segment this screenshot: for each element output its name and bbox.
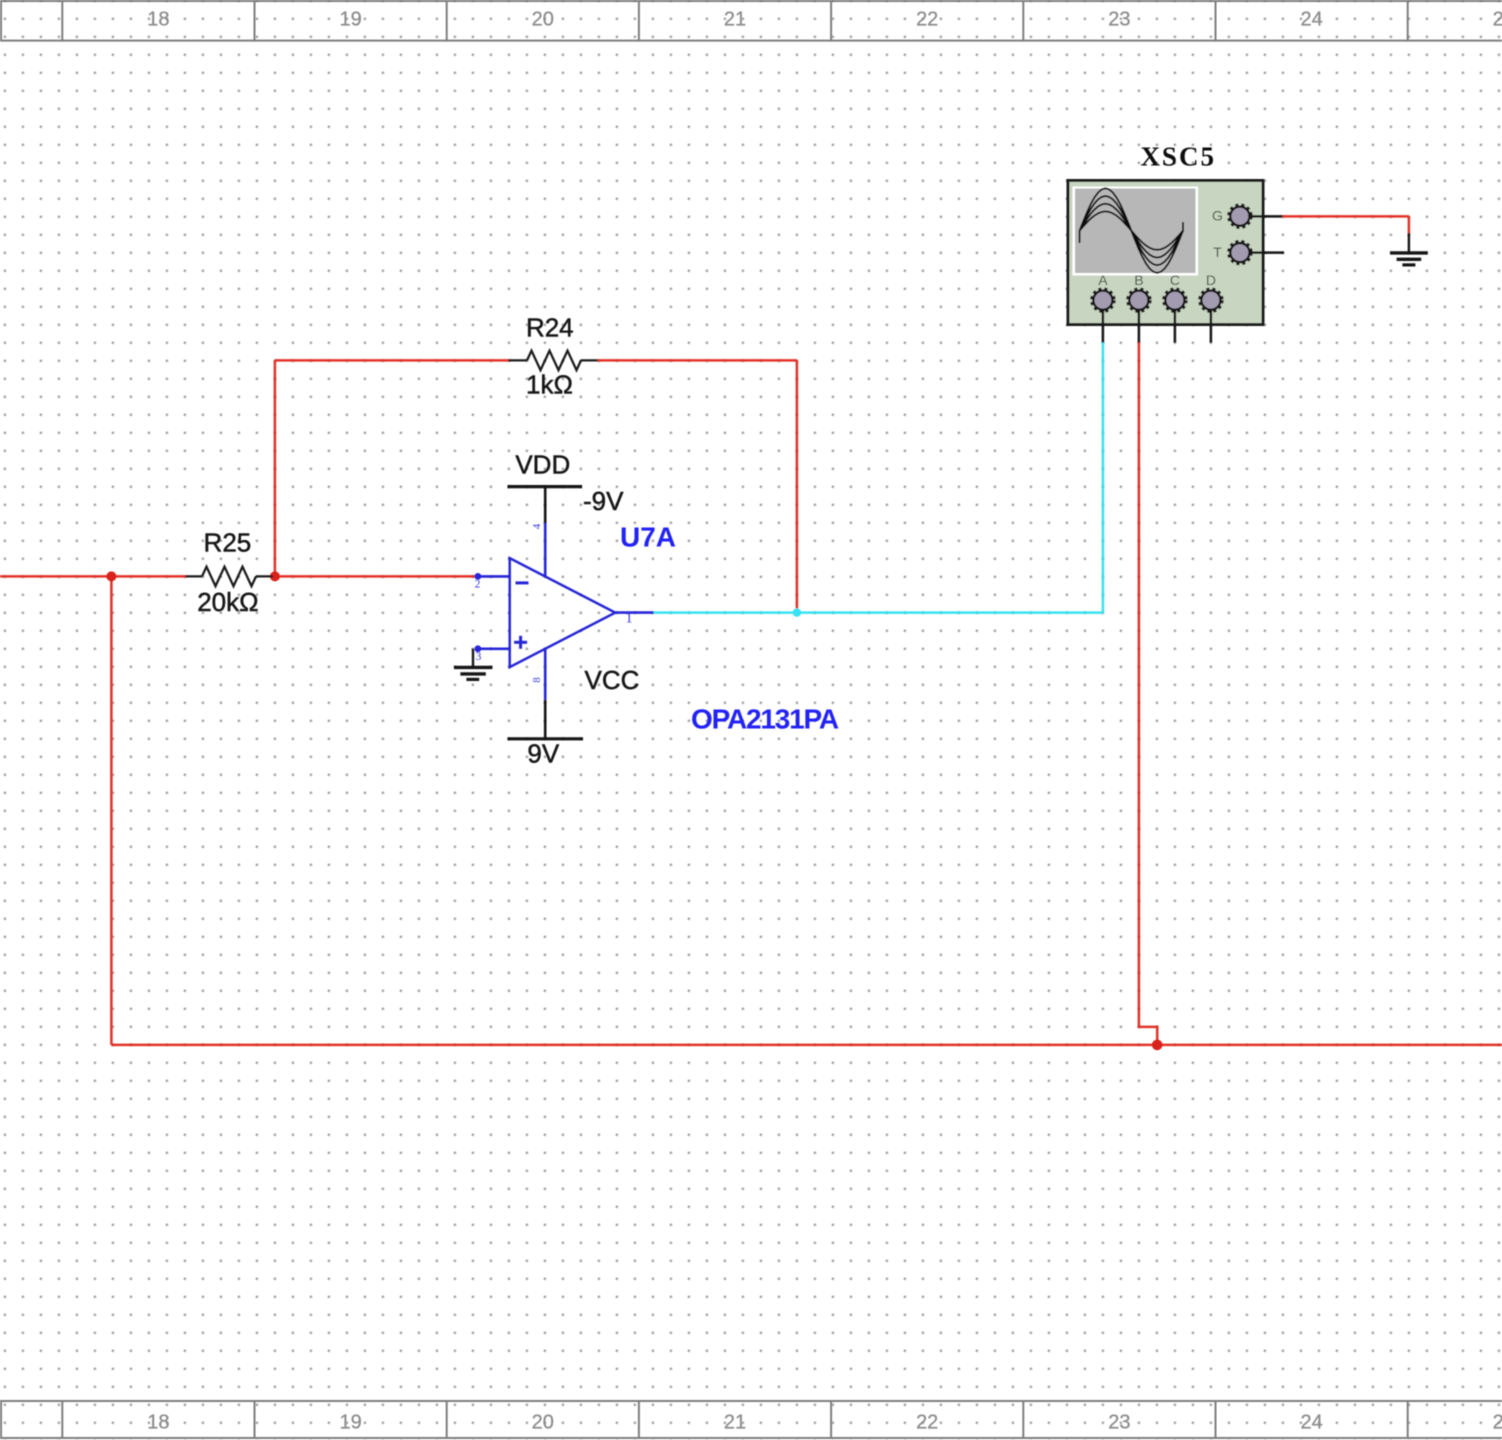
- power pin wires blue: [544, 523, 547, 577]
- terminal A: [1091, 289, 1114, 312]
- svg-text:21: 21: [724, 9, 746, 31]
- svg-text:24: 24: [1300, 9, 1322, 31]
- wire: R25 right to op-amp pin2: [273, 575, 475, 578]
- oscilloscope XSC5: [1068, 181, 1284, 343]
- svg-text:C: C: [1170, 272, 1180, 288]
- wire: scope A channel vertical: [1102, 343, 1105, 613]
- wire: feedback right vertical down to output: [796, 360, 799, 612]
- svg-text:20: 20: [532, 1412, 554, 1434]
- svg-text:1kΩ: 1kΩ: [526, 370, 573, 400]
- svg-text:R25: R25: [204, 528, 252, 558]
- svg-text:1: 1: [625, 611, 633, 627]
- pin 2 stub: [475, 575, 510, 578]
- svg-text:18: 18: [147, 9, 169, 31]
- svg-text:18: 18: [147, 1412, 169, 1434]
- svg-text:22: 22: [916, 1412, 938, 1434]
- VDD power rail: [508, 485, 583, 488]
- svg-text:23: 23: [1108, 1412, 1130, 1434]
- svg-text:20: 20: [532, 9, 554, 31]
- svg-text:19: 19: [339, 9, 361, 31]
- wire: feedback left vertical: [274, 360, 277, 576]
- minus sign: [516, 581, 529, 584]
- terminal D: [1199, 289, 1222, 312]
- junction node B (R25/R24/pin2): [270, 571, 280, 581]
- wire: input net horizontal into R25: [0, 575, 186, 578]
- terminal C: [1163, 289, 1186, 312]
- wire: op-amp output net horizontal: [654, 611, 1103, 614]
- wire: scope G to ground: [1282, 215, 1409, 218]
- svg-text:19: 19: [339, 1412, 361, 1434]
- svg-text:OPA2131PA: OPA2131PA: [691, 704, 839, 735]
- svg-text:20kΩ: 20kΩ: [197, 587, 258, 617]
- VCC power rail: [508, 737, 584, 740]
- terminal B: [1127, 289, 1150, 312]
- scope screen sine waves: [1080, 188, 1183, 273]
- terminal letters: [1098, 208, 1223, 289]
- cyan wires: [654, 343, 1103, 613]
- junction bottom wire: [1152, 1040, 1163, 1051]
- svg-text:U7A: U7A: [620, 521, 676, 552]
- resistor R24: [509, 351, 598, 370]
- scope stems A-D: [1103, 216, 1284, 342]
- svg-text:9V: 9V: [527, 738, 559, 768]
- svg-text:XSC5: XSC5: [1140, 142, 1216, 172]
- junction output/feedback (cyan): [793, 608, 801, 616]
- plus sign: [514, 641, 527, 644]
- svg-text:VCC: VCC: [585, 665, 640, 695]
- svg-text:B: B: [1134, 272, 1143, 288]
- svg-text:G: G: [1212, 208, 1223, 224]
- terminal G: [1228, 205, 1251, 228]
- terminal T: [1228, 241, 1251, 264]
- red wires: [0, 216, 1502, 1045]
- svg-text:D: D: [1206, 272, 1216, 288]
- svg-text:8: 8: [531, 677, 543, 683]
- ruler top band: [0, 0, 1502, 41]
- ruler bottom band: [0, 1401, 1502, 1438]
- ruler top numbers: [147, 9, 1502, 31]
- svg-text:A: A: [1098, 272, 1108, 288]
- output pin 1 stub: [615, 611, 653, 614]
- svg-text:R24: R24: [526, 313, 574, 343]
- wire: feedback top horizontal right of R24: [598, 359, 797, 362]
- wire: scope B channel vertical: [1139, 343, 1157, 1045]
- wire: vertical from node A down: [110, 576, 113, 1045]
- svg-text:25: 25: [1493, 9, 1502, 31]
- junction node A: [106, 571, 116, 581]
- wire: long bottom horizontal: [111, 1044, 1502, 1047]
- svg-text:-9V: -9V: [583, 486, 624, 516]
- svg-text:24: 24: [1300, 1412, 1322, 1434]
- svg-text:4: 4: [531, 523, 543, 529]
- wire: feedback top horizontal left of R24: [275, 359, 509, 362]
- svg-text:23: 23: [1108, 9, 1130, 31]
- svg-text:22: 22: [916, 9, 938, 31]
- pin 3 stub: [476, 647, 510, 650]
- svg-text:VDD: VDD: [515, 450, 570, 480]
- svg-text:3: 3: [476, 651, 482, 663]
- ground top right: [1390, 233, 1427, 265]
- svg-text:T: T: [1213, 244, 1222, 260]
- ruler bottom numbers: [147, 1412, 1502, 1434]
- svg-text:21: 21: [724, 1412, 746, 1434]
- resistor R25: [186, 567, 274, 586]
- svg-text:2: 2: [475, 579, 481, 591]
- ground near pin 3: [454, 649, 492, 680]
- op-amp U7A: [475, 523, 654, 700]
- svg-text:25: 25: [1493, 1412, 1502, 1434]
